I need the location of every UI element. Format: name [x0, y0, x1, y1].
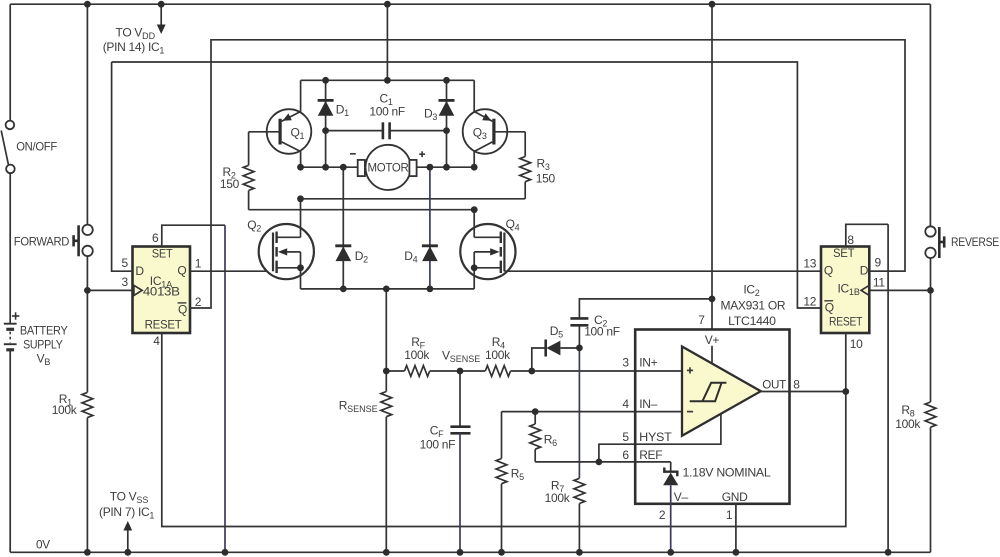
svg-text:REVERSE: REVERSE	[951, 235, 999, 249]
wire R8 to ground	[930, 427, 932, 552]
wire bottom 0V rail	[10, 551, 930, 553]
resistor RSENSE	[381, 392, 392, 417]
transistor Q2 MOSFET	[259, 199, 314, 289]
svg-text:4: 4	[153, 334, 160, 348]
wire left rail upper	[9, 4, 11, 120]
wire forward branch to clock node	[86, 256, 88, 392]
wire R2 line y210	[249, 209, 475, 211]
node clock and reset junctions	[84, 287, 934, 395]
wire RSENSE to ground	[385, 417, 387, 553]
capacitor C1	[326, 122, 447, 139]
op-amp U2 comparator triangle	[682, 347, 761, 436]
svg-text:10: 10	[850, 337, 863, 351]
battery supply VB	[4, 312, 19, 350]
wire motor rail right	[417, 166, 475, 168]
wire IC1B pin8 SET loop to ground via x888	[846, 224, 888, 246]
node TO VDD (PIN 14) IC1 label	[103, 25, 165, 55]
wire cross-coupling IC1B Qbar to IC1A D (y62)	[112, 62, 821, 308]
IC1B internal labels	[824, 246, 869, 328]
wire SET ground drop x225	[224, 225, 226, 552]
node R7 100k label	[545, 479, 571, 505]
node IC2 MAX931 OR LTC1440 label	[721, 282, 786, 328]
node ground rail junctions	[84, 549, 891, 556]
node minus input marker	[687, 411, 693, 413]
transistor Q1	[249, 80, 312, 167]
wire SET ground drop x888	[887, 224, 889, 552]
svg-text:MAX931 OR: MAX931 OR	[721, 299, 786, 313]
wire IC1B pin11 clock to REVERSE	[869, 289, 930, 291]
node motor plus label	[419, 151, 425, 157]
svg-text:3: 3	[622, 356, 629, 370]
svg-text:Q: Q	[177, 264, 186, 278]
svg-text:0V: 0V	[36, 538, 50, 552]
wire R3 line y199	[301, 198, 526, 200]
wire left rail lower	[9, 350, 11, 553]
svg-text:12: 12	[803, 295, 816, 309]
svg-text:D: D	[135, 264, 144, 278]
svg-text:6: 6	[622, 448, 629, 462]
svg-text:GND: GND	[722, 490, 748, 504]
svg-text:MOTOR: MOTOR	[368, 161, 410, 175]
svg-text:100k: 100k	[404, 348, 430, 362]
wire R7 to ground	[578, 504, 580, 553]
wire top VDD rail	[10, 3, 930, 5]
wire IC1A pin5 D input	[112, 62, 133, 271]
svg-text:V–: V–	[674, 490, 689, 504]
svg-text:OUT: OUT	[762, 377, 787, 391]
wire IC2 pin1 GND to ground	[735, 504, 737, 553]
wire IC1A pin3 clock from FORWARD	[87, 289, 132, 291]
pushbutton FORWARD	[72, 225, 93, 257]
node top rail junctions	[84, 1, 715, 8]
IC U1A body 4013B	[133, 247, 191, 334]
wire V+ into comparator	[711, 346, 713, 364]
node BATTERY SUPPLY VB label	[20, 324, 68, 367]
wire IC2 pin2 V- to ground	[670, 504, 672, 553]
wire REF line from R6 to IC2 pin 6	[535, 461, 671, 463]
svg-text:1: 1	[726, 508, 733, 522]
wire bridge bottom rail	[301, 288, 475, 290]
svg-text:1: 1	[195, 257, 202, 271]
svg-text:9: 9	[875, 255, 882, 269]
svg-text:11: 11	[873, 275, 885, 289]
IC U1B body	[821, 247, 869, 334]
svg-text:RESET: RESET	[145, 318, 183, 332]
wire IC1A pin4 RESET down	[162, 333, 846, 527]
capacitor C2	[570, 299, 712, 348]
node bridge bottom rail junctions	[340, 286, 433, 293]
svg-text:8: 8	[847, 233, 854, 247]
svg-text:3: 3	[122, 275, 129, 289]
zener diode 1.18V	[663, 462, 678, 504]
svg-text:5: 5	[622, 430, 629, 444]
svg-text:RESET: RESET	[829, 314, 863, 328]
svg-text:2: 2	[659, 508, 666, 522]
motor M1	[358, 145, 417, 190]
diode D4	[422, 167, 438, 289]
IC1A internal labels	[135, 247, 187, 332]
svg-text:2: 2	[195, 295, 202, 309]
resistor R7	[574, 478, 585, 503]
resistor R2	[243, 132, 254, 210]
svg-text:Q: Q	[824, 264, 833, 278]
wire HYST jog pin 5	[599, 414, 721, 462]
wire R4 node to IC2 IN+ pin 3	[511, 370, 683, 372]
svg-text:100k: 100k	[52, 403, 78, 417]
node R4 100k label	[485, 335, 511, 362]
node bridge leg junctions	[297, 195, 478, 271]
transistor Q4 MOSFET	[460, 210, 515, 289]
wire IC2 IN- pin 4 line	[502, 411, 683, 413]
hysteresis symbol	[690, 383, 727, 402]
wire RF to VSENSE node	[430, 370, 460, 372]
svg-text:(PIN 14) IC1: (PIN 14) IC1	[103, 40, 165, 56]
wire right rail upper	[929, 4, 931, 226]
node C1 junctions	[322, 127, 450, 134]
node R8 100k label	[895, 403, 921, 431]
diode D5	[532, 340, 580, 372]
diode D1	[318, 80, 334, 167]
node C1 100 nF label	[369, 92, 405, 119]
wire IC1B pin10 RESET stub	[845, 333, 847, 392]
svg-text:LTC1440: LTC1440	[728, 314, 776, 328]
node TO VSS (PIN 7) IC1 label	[99, 489, 154, 520]
svg-text:8: 8	[793, 377, 800, 391]
wire forward branch upper	[86, 4, 88, 224]
svg-text:FORWARD: FORWARD	[14, 234, 70, 248]
svg-text:13: 13	[803, 256, 816, 270]
wire reverse to clock node	[930, 258, 932, 402]
svg-text:Q: Q	[178, 302, 187, 316]
capacitor CF	[450, 371, 470, 552]
switch ON/OFF	[1, 121, 15, 174]
wire OUT pin 8 to IC1B reset line	[761, 391, 846, 393]
wire RF left stub	[386, 370, 404, 372]
svg-text:(PIN 7) IC1: (PIN 7) IC1	[99, 505, 154, 521]
wire motor rail	[301, 166, 358, 168]
wire R1 to ground	[86, 418, 88, 553]
svg-text:4: 4	[622, 397, 629, 411]
wire VSENSE to R4	[460, 370, 485, 372]
TO VDD arrow	[157, 4, 166, 34]
svg-text:SET: SET	[833, 246, 855, 260]
node motor minus label	[350, 153, 356, 155]
node R3 150 label	[536, 157, 556, 186]
svg-text:HYST: HYST	[639, 430, 672, 444]
svg-text:BATTERY: BATTERY	[20, 324, 68, 338]
wire bridge foot to RSENSE node	[385, 289, 387, 392]
node R2 150 label	[220, 165, 240, 191]
resistor R8	[925, 402, 936, 427]
resistor R4	[485, 366, 510, 377]
svg-text:Q: Q	[825, 300, 834, 314]
svg-text:SET: SET	[152, 247, 174, 261]
svg-text:6: 6	[152, 231, 159, 245]
svg-text:D: D	[860, 264, 869, 278]
pushbutton REVERSE	[925, 226, 945, 258]
wire left rail mid	[9, 173, 11, 324]
resistor R3	[520, 132, 531, 199]
resistor R1	[82, 392, 93, 417]
wire center drop from VDD rail	[386, 4, 388, 80]
transistor Q3	[463, 80, 526, 167]
wire IC1B Q pin13 to Q4 gate	[504, 270, 821, 272]
diode D2	[335, 167, 351, 289]
node RF 100k label	[404, 335, 430, 362]
IC1A clock triangle pin 3	[134, 285, 142, 295]
svg-text:100k: 100k	[895, 417, 921, 431]
svg-text:100 nF: 100 nF	[369, 104, 405, 118]
wire IC1A pin6 SET loop to ground via x225	[162, 225, 225, 246]
diode D3	[439, 80, 455, 167]
TO VSS arrow	[123, 521, 132, 552]
node C2 100 nF label	[584, 313, 620, 339]
svg-text:100k: 100k	[545, 491, 571, 505]
wire D5 node down to R7	[578, 348, 580, 478]
svg-text:IN+: IN+	[639, 356, 657, 370]
svg-text:1.18V NOMINAL: 1.18V NOMINAL	[683, 465, 772, 479]
IC U2 box outline	[635, 330, 789, 504]
node sense line junctions	[383, 296, 715, 466]
svg-text:SUPPLY: SUPPLY	[23, 337, 63, 351]
node bridge top rail junctions	[322, 77, 450, 84]
svg-text:150: 150	[220, 177, 240, 191]
node plus input marker	[687, 367, 693, 373]
IC1B clock triangle pin 11	[861, 285, 869, 295]
svg-text:V+: V+	[705, 333, 720, 347]
svg-text:100k: 100k	[485, 348, 511, 362]
resistor RF	[405, 366, 430, 377]
svg-text:4013B: 4013B	[143, 285, 180, 299]
svg-text:REF: REF	[639, 448, 662, 462]
wire IC1A pin1 Q output to Q2 gate	[190, 270, 273, 272]
wire V+ drop from VDD rail to IC2 pin 7	[711, 4, 713, 329]
svg-text:IN–: IN–	[639, 397, 657, 411]
node CF 100 nF label	[420, 424, 456, 452]
svg-text:150: 150	[536, 172, 556, 186]
svg-text:100 nF: 100 nF	[420, 437, 456, 451]
node R1 100k label	[52, 392, 78, 417]
svg-text:ON/OFF: ON/OFF	[16, 139, 57, 153]
svg-text:100 nF: 100 nF	[584, 325, 620, 339]
wire IC1A pin2 Qbar up to y40	[190, 40, 905, 308]
node motor rail junctions	[297, 164, 478, 171]
resistor R5	[496, 412, 507, 553]
svg-text:5: 5	[122, 256, 129, 270]
wire bridge top rail	[301, 79, 475, 81]
wire IC1B pin9 D input from y40 line	[869, 270, 905, 272]
resistor R6	[530, 412, 541, 462]
svg-text:7: 7	[698, 313, 705, 327]
